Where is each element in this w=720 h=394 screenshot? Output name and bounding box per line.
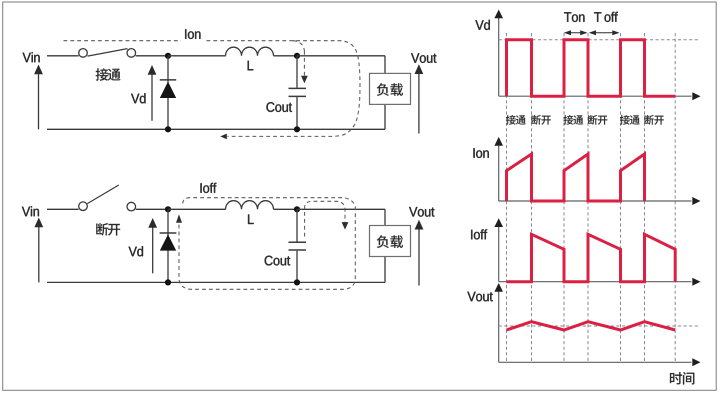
label Vd (plot) [475,20,489,30]
label Ioff (plot) [471,229,487,239]
capacitor Cout (top circuit) [289,56,307,130]
inductor L (top circuit) [226,47,274,56]
wire inductor to node B (bottom) [274,208,298,210]
Vout ripple waveform (red) [507,322,676,330]
label Ion (plot) [473,148,488,158]
capacitor Cout (bottom circuit) [289,209,307,282]
Vout arrow (bottom circuit) [415,220,424,286]
Ioff dashed current loop [176,198,355,290]
switch S1 closed [79,49,136,58]
wire switch to node A (bottom) [136,208,168,210]
label Toff [594,12,618,22]
Ion dashed current loop [64,41,361,140]
Vd arrow (bottom circuit) [148,218,157,273]
wire top rail left to switch [47,55,79,57]
bottom rail (bottom circuit) [47,281,385,283]
Vin arrow (bottom circuit) [34,218,43,283]
labels 接通/断开 row [506,115,664,125]
node A- dot (bottom) [165,279,171,285]
label Cout (top circuit) [266,102,292,112]
Ion waveform (red) [507,154,645,201]
label Ioff [200,183,216,193]
node A junction dot [165,53,171,59]
wire node B to load (bottom) [297,209,385,225]
label Vout (bottom circuit) [409,207,434,217]
node A junction dot (bottom) [165,206,171,212]
Ioff waveform (red) [507,234,676,281]
node B- junction dot [294,126,300,132]
Vout plot axes [494,283,700,366]
Vd waveform (red square wave) [507,40,676,96]
load box 负载 (bottom circuit) [370,226,411,257]
Ioff plot axes [494,218,700,286]
label Cout (bottom circuit) [265,256,291,266]
node Vin (top) label [23,52,40,62]
wire node B to load branch [297,56,385,74]
Vin arrow (top circuit) [34,65,43,130]
Vd high level dashed line [499,39,700,41]
label 接通 (closed) [96,68,121,80]
node B junction dot [294,53,300,59]
Vout average dashed line [499,325,700,327]
wire node A to inductor [168,55,226,57]
Ioff inner branch arrow [305,201,349,236]
Vout arrow (top circuit) [415,64,424,133]
load branch bottom (top circuit) [384,104,386,129]
diode D1 (bottom, conducting) [160,209,177,282]
Ton span arrow [564,30,588,35]
label 断开 (open) [96,223,120,236]
wire rail left to switch (bottom) [47,208,79,210]
diode D1 (Vd) [160,56,176,130]
bottom rail (top circuit) [47,128,385,130]
label Ton [564,12,584,22]
switch S1 open [79,185,136,211]
label L (top circuit) [248,61,254,70]
label Ion [185,29,200,39]
wire inductor to node B [274,55,298,57]
Vd plot axes [494,10,700,101]
Ion plot axes [494,137,700,205]
label 时间 (time) [670,372,694,385]
Vd arrow (top circuit) [148,65,157,121]
inductor L (bottom circuit) [226,201,274,210]
node Vin (bottom) label [22,206,39,216]
waveform grid dashed verticals [507,33,676,362]
node B junction dot (bottom) [294,206,300,212]
label L (bottom circuit) [248,215,254,224]
Toff span arrow [589,30,620,35]
label Vout (plot) [467,292,492,302]
node A- junction dot [165,126,171,132]
node B- dot (bottom) [294,279,300,285]
Ion branch arrow into Cout [293,41,308,83]
label Vout (top circuit) [411,53,436,63]
label Vd (bottom circuit) [129,246,143,256]
load box 负载 (top circuit) [370,73,411,104]
load branch bottom (bottom circuit) [384,257,386,283]
wire switch to node A [136,55,168,57]
label Vd (top circuit) [131,93,145,103]
wire node A to inductor (bottom) [168,208,226,210]
